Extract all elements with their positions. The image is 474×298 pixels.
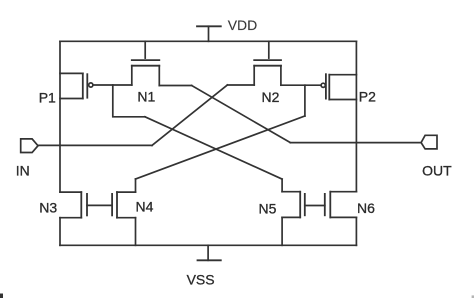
svg-text:N2: N2 xyxy=(262,89,280,105)
svg-text:P1: P1 xyxy=(39,89,56,105)
svg-text:VDD: VDD xyxy=(228,17,258,33)
svg-text:OUT: OUT xyxy=(422,162,452,178)
svg-text:N6: N6 xyxy=(357,200,375,216)
svg-text:N4: N4 xyxy=(136,198,154,214)
svg-text:P2: P2 xyxy=(359,88,376,104)
svg-text:VSS: VSS xyxy=(187,271,215,287)
svg-text:N3: N3 xyxy=(39,199,57,215)
svg-text:N5: N5 xyxy=(259,201,277,217)
svg-text:N1: N1 xyxy=(137,88,155,104)
svg-text:IN: IN xyxy=(16,163,30,179)
